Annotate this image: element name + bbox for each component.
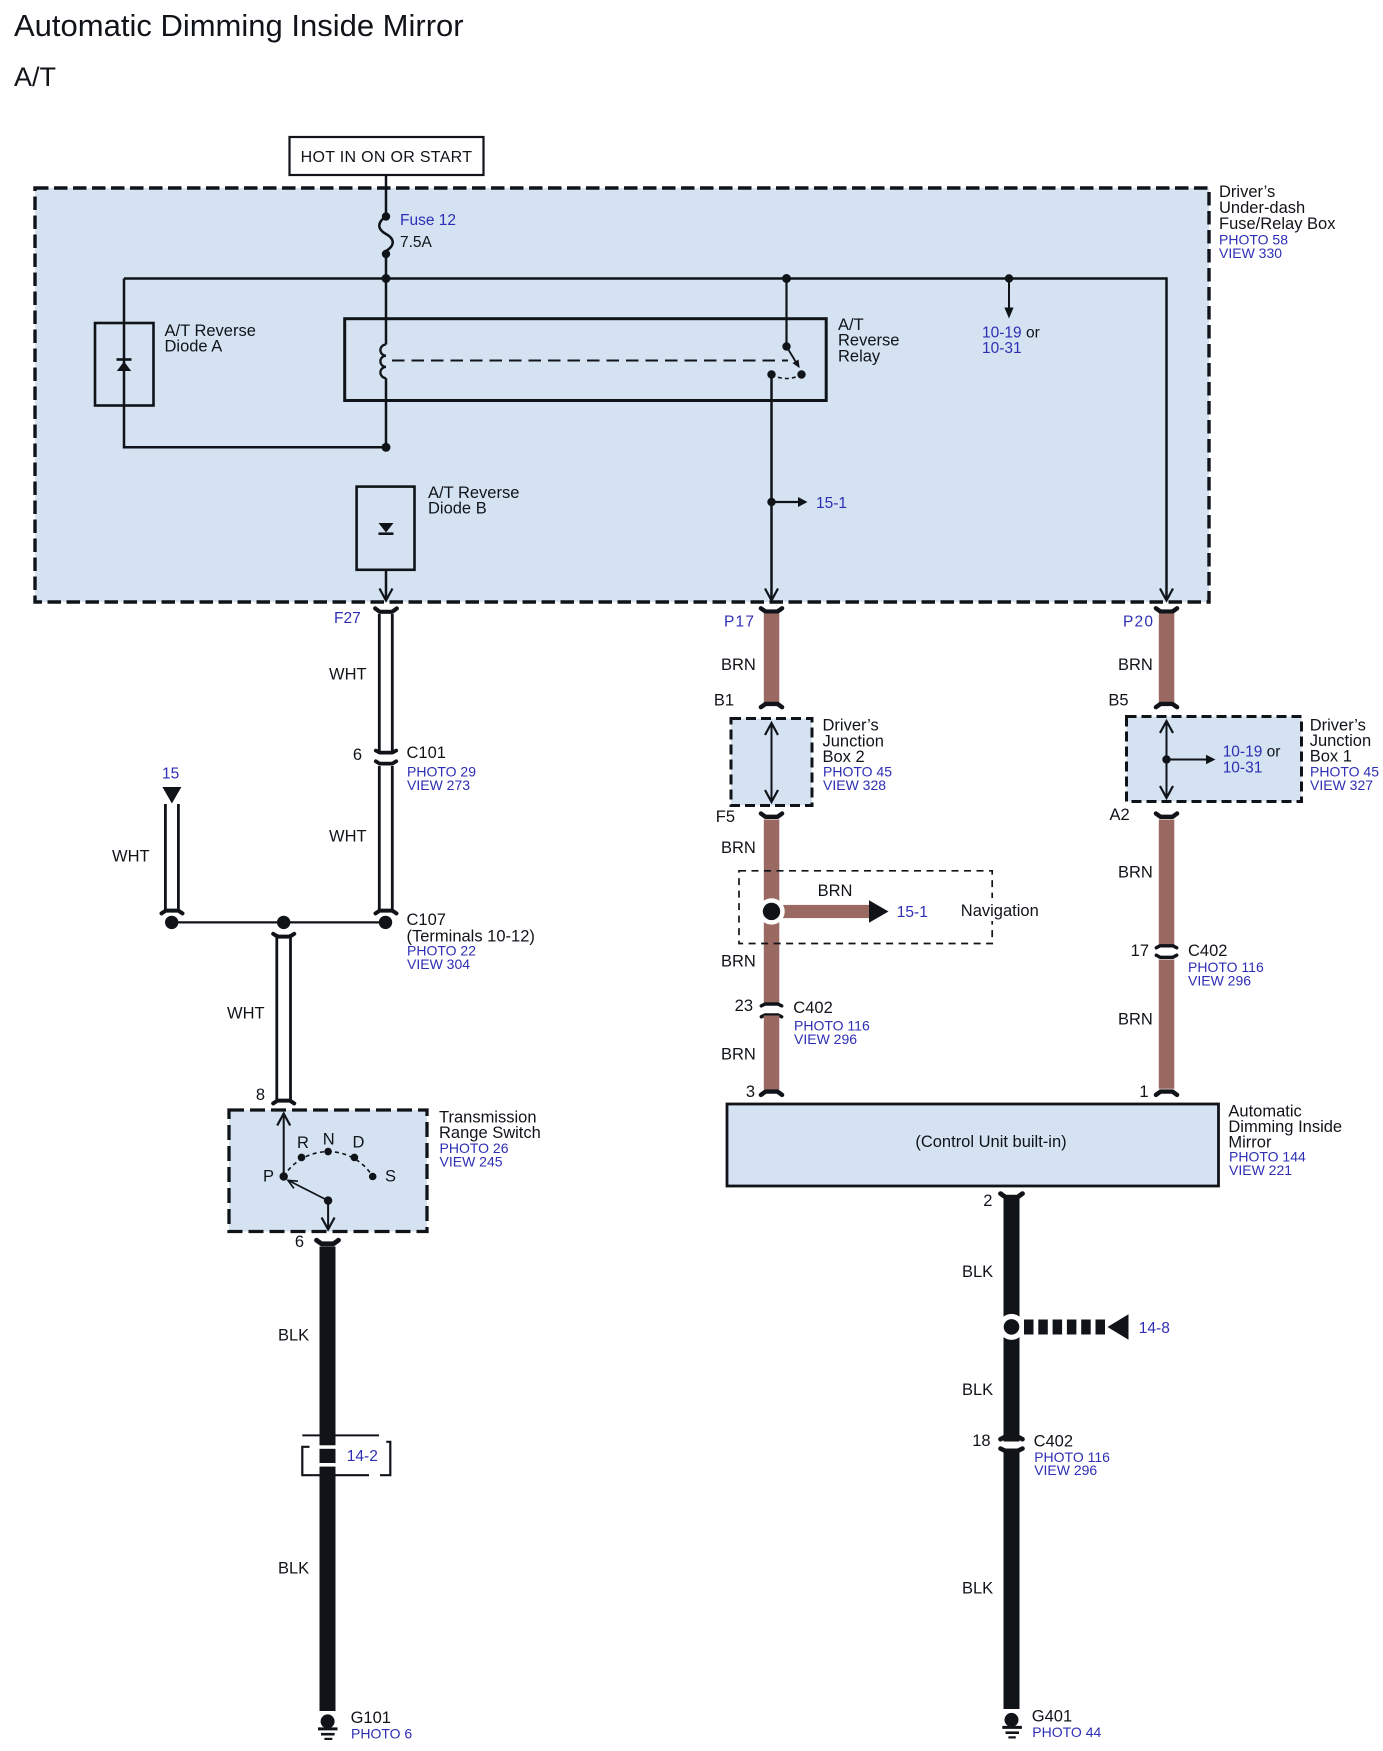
node: bus at relay switch xyxy=(782,274,791,283)
svg-text:8: 8 xyxy=(256,1086,265,1104)
switch contact N xyxy=(323,1131,335,1156)
svg-text:7.5A: 7.5A xyxy=(400,234,433,251)
wire: down to P17 arrowhead xyxy=(765,502,778,601)
wire: BRN F5 down to C402 xyxy=(721,820,779,1005)
svg-text:15-1: 15-1 xyxy=(816,495,847,512)
node: C107 right xyxy=(379,916,392,929)
svg-text:(Control Unit built-in): (Control Unit built-in) xyxy=(915,1133,1066,1151)
box: Automatic Dimming Inside Mirror control unit xyxy=(727,1104,1219,1186)
box: Driver's Under-dash Fuse/Relay Box (dashed) xyxy=(35,188,1209,602)
svg-text:WHT: WHT xyxy=(329,828,367,846)
svg-text:Diode B: Diode B xyxy=(428,500,487,518)
box: Driver's Junction Box 1 (dashed) xyxy=(1127,717,1302,802)
svg-text:VIEW 328: VIEW 328 xyxy=(823,777,886,793)
wire: BRN P20 to B5 xyxy=(1118,614,1174,703)
connector pin 2 (cap) xyxy=(983,1192,1022,1210)
switch: common down to pin 6 xyxy=(322,1201,335,1230)
svg-text:F5: F5 xyxy=(716,808,735,826)
box: Navigation (dashed) xyxy=(739,871,1039,944)
connector cap: left wire into C107 xyxy=(162,911,183,914)
connector cap: pin 8 xyxy=(256,1086,294,1104)
svg-text:VIEW 330: VIEW 330 xyxy=(1219,245,1282,261)
connector A2 (cap) xyxy=(1110,806,1178,824)
svg-text:VIEW 327: VIEW 327 xyxy=(1310,777,1373,793)
svg-text:BRN: BRN xyxy=(818,882,853,900)
svg-text:14-2: 14-2 xyxy=(347,1448,378,1465)
svg-text:WHT: WHT xyxy=(329,666,367,684)
wire: WHT middle down to pin 8 xyxy=(227,934,291,1100)
connector B1 (cap) xyxy=(714,692,782,710)
wire: BLK pin 2 to C402 pin 18 xyxy=(962,1199,1020,1442)
connector B5 (cap) xyxy=(1108,692,1177,710)
svg-text:P20: P20 xyxy=(1123,614,1154,631)
svg-text:C402: C402 xyxy=(793,999,832,1017)
wire: bus right end down to P20 arrowhead xyxy=(1160,277,1173,600)
connector F27 (cap) xyxy=(334,608,397,627)
wire: BRN C402 to pin 1 xyxy=(1118,960,1174,1089)
svg-text:B1: B1 xyxy=(714,692,734,710)
relay switch xyxy=(767,279,805,379)
ground G101 xyxy=(318,1709,412,1742)
svg-text:VIEW 304: VIEW 304 xyxy=(407,956,470,972)
node: fuse top xyxy=(382,212,390,220)
svg-text:6: 6 xyxy=(295,1233,304,1251)
node: C107 middle xyxy=(277,916,290,929)
box: Transmission Range Switch (dashed) xyxy=(229,1110,427,1232)
arrow: bus branch to 10-19 or 10-31 xyxy=(982,279,1040,358)
node: bus at 10-19 branch xyxy=(1005,274,1013,282)
wire: BRN A2 to C402 pin 17 xyxy=(1118,820,1174,947)
connector P17 (cap) xyxy=(724,608,782,630)
svg-text:P17: P17 xyxy=(724,614,755,631)
svg-text:1: 1 xyxy=(1139,1083,1148,1101)
svg-text:VIEW 221: VIEW 221 xyxy=(1229,1162,1292,1178)
box: Driver's Junction Box 2 (dashed) xyxy=(731,719,812,806)
svg-text:Automatic Dimming Inside Mirro: Automatic Dimming Inside Mirror xyxy=(14,8,464,43)
ground G401 xyxy=(1002,1708,1101,1741)
svg-text:HOT IN ON OR START: HOT IN ON OR START xyxy=(301,149,473,166)
connector cap: middle wire top xyxy=(273,934,294,937)
svg-text:N: N xyxy=(323,1131,335,1149)
svg-text:G401: G401 xyxy=(1032,1708,1072,1726)
label: Automatic Dimming Inside Mirror xyxy=(1228,1103,1342,1178)
label: Driver's Under-dash Fuse/Relay Box xyxy=(1219,183,1336,261)
diode B symbol xyxy=(379,523,394,534)
node: fuse bottom xyxy=(382,250,390,258)
svg-text:PHOTO 6: PHOTO 6 xyxy=(351,1726,412,1742)
component: A/T Reverse Relay box xyxy=(345,319,827,401)
switch: arrow up from P to pin 8 xyxy=(277,1114,290,1177)
svg-text:14-8: 14-8 xyxy=(1139,1320,1170,1337)
svg-text:Navigation: Navigation xyxy=(961,902,1039,920)
connector C402 pin 23 xyxy=(735,997,870,1047)
svg-text:R: R xyxy=(297,1134,309,1152)
svg-text:G101: G101 xyxy=(351,1709,391,1727)
wire: BRN C402 to pin 3 xyxy=(721,1016,779,1090)
label: Driver's Junction Box 1 xyxy=(1310,717,1380,794)
svg-text:3: 3 xyxy=(746,1083,755,1101)
switch contact R xyxy=(297,1134,309,1161)
svg-text:BRN: BRN xyxy=(721,656,756,674)
svg-text:VIEW 296: VIEW 296 xyxy=(1188,973,1251,989)
svg-text:18: 18 xyxy=(972,1432,990,1450)
fuse Fuse 12 7.5A xyxy=(379,217,393,255)
svg-text:C402: C402 xyxy=(1034,1433,1073,1451)
svg-text:B5: B5 xyxy=(1108,692,1128,710)
switch contact P xyxy=(263,1168,288,1186)
label: A/T Reverse Diode A xyxy=(165,322,256,356)
wire: BRN branch arrow to 15-1 xyxy=(772,882,928,923)
svg-text:10-19 or: 10-19 or xyxy=(1223,744,1281,761)
svg-text:15-1: 15-1 xyxy=(897,904,928,921)
svg-text:WHT: WHT xyxy=(112,848,150,866)
svg-text:BRN: BRN xyxy=(721,839,756,857)
svg-text:WHT: WHT xyxy=(227,1005,265,1023)
junction box 1 internal arrows xyxy=(1160,721,1280,798)
node: navigation tap (ring) xyxy=(758,898,784,924)
switch contact D xyxy=(351,1134,365,1162)
arrow: to 15-1 xyxy=(772,495,848,512)
svg-text:BRN: BRN xyxy=(1118,1011,1153,1029)
svg-text:BRN: BRN xyxy=(721,1046,756,1064)
label: Fuse 12 7.5A xyxy=(400,212,456,251)
svg-text:C402: C402 xyxy=(1188,942,1227,960)
svg-text:D: D xyxy=(353,1134,365,1152)
svg-text:VIEW 296: VIEW 296 xyxy=(794,1031,857,1047)
connector C402 pin 18 xyxy=(972,1432,1110,1478)
wire: C107 horizontal tie xyxy=(172,921,386,923)
svg-text:10-19 or: 10-19 or xyxy=(982,325,1040,342)
connector cap: pin 6 of range switch xyxy=(295,1233,339,1251)
wire: relay switch down to P17 with 15-1 branch xyxy=(770,375,773,503)
svg-text:C107: C107 xyxy=(407,911,446,929)
svg-text:2: 2 xyxy=(983,1192,992,1210)
wire: WHT from 15 down to C107 xyxy=(112,804,178,910)
node: diode B top junction xyxy=(382,443,391,452)
svg-text:10-31: 10-31 xyxy=(1223,760,1263,777)
wire: diode A branch left vertical and bottom return xyxy=(124,279,386,448)
svg-text:Fuse/Relay Box: Fuse/Relay Box xyxy=(1219,215,1336,233)
switch: dashed gate arc xyxy=(284,1152,373,1177)
node: C107 left xyxy=(165,916,178,929)
connector pin 1 (cap) xyxy=(1139,1083,1177,1101)
svg-text:BLK: BLK xyxy=(278,1560,309,1578)
connector pin 3 (cap) xyxy=(746,1083,782,1101)
wire: BRN P17 to B1 xyxy=(721,614,779,704)
svg-text:BLK: BLK xyxy=(962,1381,993,1399)
connector F5 (cap) xyxy=(716,808,782,826)
connector P20 (cap) xyxy=(1123,608,1177,630)
title xyxy=(14,8,464,92)
svg-text:VIEW 245: VIEW 245 xyxy=(440,1154,503,1170)
wire: main horizontal bus xyxy=(124,277,1167,280)
diode A symbol xyxy=(117,360,132,372)
relay dashed actuation line xyxy=(392,360,788,362)
node: bus at fuse xyxy=(382,274,391,283)
svg-text:P: P xyxy=(263,1168,274,1186)
svg-text:BLK: BLK xyxy=(278,1327,309,1345)
marker: 14-2 harness reference xyxy=(302,1435,390,1475)
svg-text:17: 17 xyxy=(1131,942,1149,960)
wire: WHT F27 to C101 (double line) xyxy=(329,614,392,752)
label: A/T Reverse Diode B xyxy=(428,484,519,518)
marker: 14-8 reference (node ring + dashed arrow) xyxy=(999,1314,1170,1340)
component: A/T Reverse Diode B box xyxy=(357,487,415,570)
wire: BLK range switch to G101 xyxy=(278,1247,336,1712)
wire: diode B down to F27 arrowhead xyxy=(380,570,393,601)
label: Transmission Range Switch xyxy=(439,1109,541,1170)
svg-text:BRN: BRN xyxy=(721,953,756,971)
svg-text:BLK: BLK xyxy=(962,1580,993,1598)
junction box 2 internal arrow xyxy=(765,723,778,802)
svg-text:F27: F27 xyxy=(334,610,361,627)
svg-text:A2: A2 xyxy=(1110,806,1130,824)
switch: wiper arm to common xyxy=(288,1180,332,1204)
svg-text:10-31: 10-31 xyxy=(982,340,1022,357)
wire: WHT C101 to C107 xyxy=(329,766,392,910)
wire: HOT IN feed down to fuse xyxy=(385,175,388,217)
box: HOT IN ON OR START xyxy=(290,137,484,175)
connector cap: right wire into C107 xyxy=(376,911,397,914)
relay coil xyxy=(380,279,386,448)
svg-text:Relay: Relay xyxy=(838,348,881,366)
svg-text:VIEW 296: VIEW 296 xyxy=(1034,1462,1097,1478)
node: 15-1 branch xyxy=(767,498,775,506)
svg-text:15: 15 xyxy=(162,766,179,783)
label: C107 (Terminals 10-12) xyxy=(407,911,535,972)
svg-text:Diode A: Diode A xyxy=(165,338,223,356)
svg-text:BRN: BRN xyxy=(1118,864,1153,882)
switch contact S xyxy=(369,1168,396,1186)
svg-text:BLK: BLK xyxy=(962,1263,993,1281)
wire: fuse to bus xyxy=(385,254,388,279)
svg-text:C101: C101 xyxy=(407,744,446,762)
label: Driver's Junction Box 2 xyxy=(823,717,893,793)
svg-text:Fuse 12: Fuse 12 xyxy=(400,212,456,229)
svg-text:23: 23 xyxy=(735,997,753,1015)
wire: BLK C402 to G401 xyxy=(962,1453,1020,1710)
svg-text:VIEW 273: VIEW 273 xyxy=(407,777,470,793)
connector C101 pin 6 xyxy=(353,744,476,793)
component: A/T Reverse Diode A box xyxy=(95,323,154,406)
label: A/T Reverse Relay xyxy=(838,316,899,366)
connector C402 pin 17 xyxy=(1131,942,1264,989)
svg-text:6: 6 xyxy=(353,746,362,764)
svg-text:S: S xyxy=(385,1168,396,1186)
svg-text:BRN: BRN xyxy=(1118,656,1153,674)
svg-text:PHOTO 44: PHOTO 44 xyxy=(1032,1724,1101,1740)
svg-text:A/T: A/T xyxy=(14,62,56,92)
arrow 15 into left WHT wire xyxy=(162,766,181,804)
